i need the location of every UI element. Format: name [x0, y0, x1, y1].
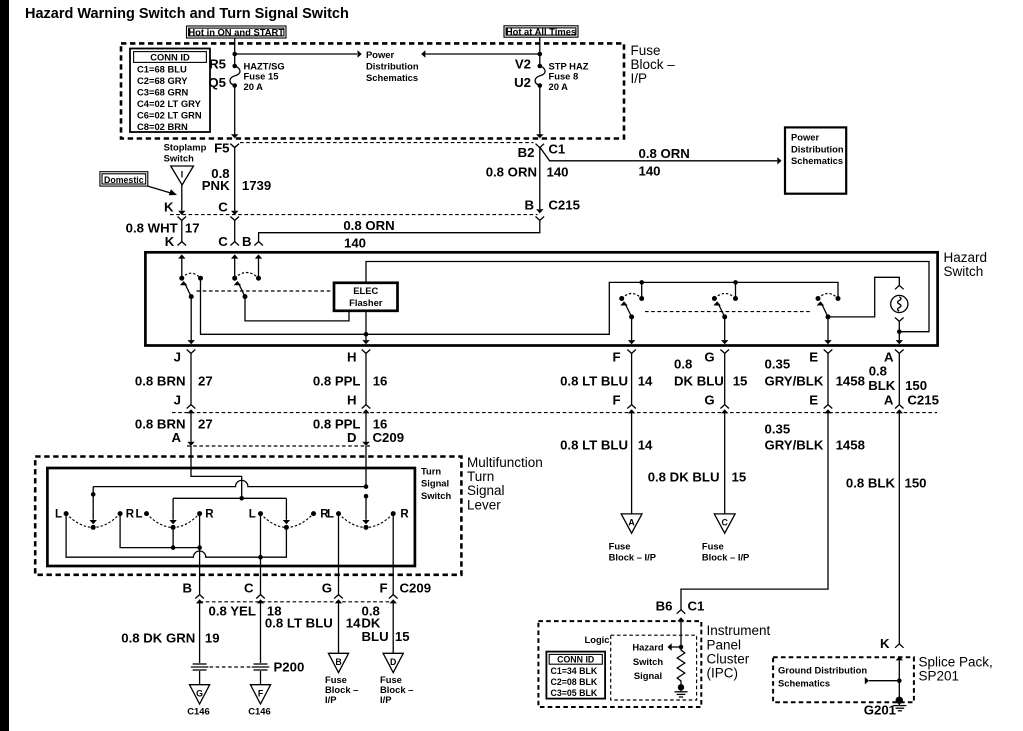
svg-text:C8=02 BRN: C8=02 BRN	[137, 121, 188, 132]
svg-text:R: R	[126, 509, 135, 521]
wire C output (pole3 L)	[256, 514, 265, 604]
switch K contact (hazard)	[178, 254, 203, 299]
svg-text:Fuse: Fuse	[702, 541, 724, 552]
node Power Distribution Schematics box (right)	[785, 127, 846, 193]
turn signal switch box	[47, 468, 415, 566]
svg-text:Signal: Signal	[634, 670, 662, 681]
svg-text:D: D	[390, 657, 396, 667]
wire flasher mech dashed (right)	[645, 311, 812, 313]
svg-text:0.35: 0.35	[765, 357, 791, 372]
svg-text:17: 17	[185, 221, 200, 236]
elec flasher U1	[334, 283, 398, 311]
node K label (upper)	[164, 199, 228, 214]
hazard switch box	[145, 252, 937, 345]
ground (IPC logic)	[675, 684, 688, 697]
svg-text:E: E	[809, 350, 818, 365]
svg-text:I: I	[181, 170, 183, 180]
svg-text:Block – I/P: Block – I/P	[609, 552, 656, 563]
fuse HAZT/SG Fuse 15	[208, 56, 284, 92]
svg-text:0.8 LT BLU: 0.8 LT BLU	[265, 616, 333, 631]
svg-text:ELEC: ELEC	[353, 285, 378, 296]
page edge bar	[0, 0, 9, 731]
resistor (IPC hazard signal)	[677, 647, 685, 685]
node connector C215 dashed line (lower)	[172, 412, 937, 414]
svg-text:20 A: 20 A	[549, 81, 569, 92]
svg-text:D: D	[347, 430, 357, 445]
svg-text:L: L	[55, 509, 62, 521]
svg-text:140: 140	[639, 164, 661, 179]
ground G201	[864, 702, 907, 717]
wire G to fuse block (0.8 LT BLU 14)	[265, 603, 361, 653]
wire B6 into IPC	[677, 617, 684, 649]
svg-text:Distribution: Distribution	[791, 144, 844, 155]
node connector C209 dashed line (upper)	[187, 445, 370, 447]
connector C triangle (Fuse Block I/P)	[702, 514, 749, 563]
splice (B wire)	[191, 664, 209, 670]
wire A to splice pack (0.8 BLK 150)	[846, 413, 927, 651]
svg-text:Logic: Logic	[585, 634, 610, 645]
IPC dashed box	[538, 621, 701, 707]
fuse STP HAZ Fuse 8	[514, 56, 589, 92]
wire fuse to B2	[536, 86, 543, 139]
svg-text:Splice Pack,: Splice Pack,	[919, 654, 993, 669]
svg-text:P200: P200	[274, 660, 305, 675]
node L R labels pole 3	[249, 509, 330, 521]
svg-text:15: 15	[395, 629, 410, 644]
wire stoplamp to K	[178, 185, 185, 215]
svg-text:Power: Power	[791, 132, 819, 143]
svg-text:15: 15	[733, 373, 748, 388]
svg-text:150: 150	[905, 378, 927, 393]
wire D feed line (hops A drop)	[91, 480, 368, 496]
svg-text:Hot in ON and START: Hot in ON and START	[188, 26, 284, 37]
svg-text:0.8 BRN: 0.8 BRN	[135, 373, 186, 388]
svg-text:Schematics: Schematics	[791, 155, 843, 166]
wire B to C146 (0.8 DK GRN 19)	[121, 603, 219, 684]
wire C to C146 (0.8 YEL 18)	[208, 603, 281, 684]
node B6 / C1	[656, 598, 705, 613]
svg-text:140: 140	[344, 236, 366, 251]
svg-text:C: C	[722, 518, 729, 528]
wire B2 to C215 (0.8 ORN 140)	[486, 148, 569, 214]
splice P200	[210, 660, 305, 675]
svg-text:Stoplamp: Stoplamp	[164, 142, 207, 153]
svg-text:Hazard: Hazard	[632, 642, 664, 653]
wire A pin to C215	[895, 350, 904, 414]
node Stoplamp Switch	[164, 142, 207, 185]
wire F pin to C215	[627, 350, 636, 414]
svg-text:1739: 1739	[242, 178, 271, 193]
wire G to fuse block (0.8 DK BLU 15)	[648, 413, 746, 514]
svg-text:I/P: I/P	[325, 694, 336, 705]
svg-text:0.8 DK BLU: 0.8 DK BLU	[648, 470, 720, 485]
node Multifunction Turn Signal Lever label	[467, 455, 543, 512]
svg-text:CONN ID: CONN ID	[557, 654, 594, 664]
svg-text:Fuse: Fuse	[609, 541, 631, 552]
wire K into splice pack	[896, 656, 903, 699]
node B2 / C1	[518, 141, 566, 160]
wire 0.8 PNK 1739	[202, 144, 271, 246]
wire left-turn bus (pole1 L, C junction, pole3 pivot)	[66, 514, 286, 560]
svg-text:Turn: Turn	[467, 469, 494, 484]
node Hot in ON and START	[187, 26, 287, 38]
svg-text:Signal: Signal	[421, 478, 449, 489]
wire K feed bus to right switches	[201, 278, 839, 334]
svg-text:C3=68 GRN: C3=68 GRN	[137, 87, 189, 98]
svg-text:19: 19	[205, 631, 220, 646]
svg-text:Distribution: Distribution	[366, 61, 419, 72]
svg-text:C215: C215	[548, 198, 580, 213]
svg-text:0.8 LT BLU: 0.8 LT BLU	[560, 437, 628, 452]
splice pack dashed box	[773, 657, 914, 702]
wire arrow from STP HAZ fuse to Power Distribution text	[421, 50, 540, 57]
svg-text:R5: R5	[209, 56, 226, 71]
svg-text:C146: C146	[187, 706, 209, 717]
svg-text:G: G	[704, 350, 714, 365]
node Turn Signal Switch label	[421, 465, 451, 501]
wire F output (pole4 R)	[389, 514, 398, 604]
svg-text:Switch: Switch	[944, 264, 984, 279]
node CONN ID table (IPC)	[546, 652, 605, 699]
node Splice Pack SP201 label	[919, 654, 993, 683]
svg-text:K: K	[165, 234, 175, 249]
svg-text:Panel: Panel	[707, 637, 742, 652]
wire H pin to C215	[362, 350, 371, 414]
switch turn pole 4 (L-R)	[336, 496, 396, 530]
svg-text:B6: B6	[656, 598, 673, 613]
svg-text:0.8 ORN: 0.8 ORN	[486, 165, 537, 180]
svg-text:BLK: BLK	[868, 378, 896, 393]
svg-text:B: B	[242, 234, 252, 249]
wire 0.8 WHT 17	[126, 217, 200, 246]
connector D triangle (Fuse Block I/P)	[380, 653, 413, 705]
svg-text:140: 140	[547, 165, 569, 180]
svg-text:0.8: 0.8	[674, 357, 692, 372]
svg-text:Power: Power	[366, 49, 394, 60]
svg-text:Instrument: Instrument	[707, 623, 771, 638]
svg-text:L: L	[327, 509, 334, 521]
svg-text:L: L	[135, 509, 142, 521]
svg-text:Hazard: Hazard	[944, 250, 988, 265]
svg-text:0.8 PPL: 0.8 PPL	[313, 373, 361, 388]
svg-text:C3=05 BLK: C3=05 BLK	[551, 688, 598, 698]
wire 0.8 ORN 140 horizontal to B pin	[254, 217, 544, 251]
svg-text:L: L	[249, 509, 256, 521]
switch turn pole 2 (L-R)	[144, 498, 202, 530]
svg-text:20 A: 20 A	[244, 81, 264, 92]
svg-text:Q5: Q5	[208, 75, 226, 90]
svg-text:1458: 1458	[836, 373, 865, 388]
node Hazard Switch label	[944, 250, 988, 279]
switch turn pole 1 (L-R)	[64, 487, 123, 530]
svg-text:G: G	[322, 581, 332, 596]
wire B output (pole2 R)	[195, 514, 204, 604]
svg-text:C4=02 LT GRY: C4=02 LT GRY	[137, 98, 202, 109]
svg-text:C: C	[244, 581, 254, 596]
svg-text:PNK: PNK	[202, 178, 230, 193]
wire J pin to C215	[187, 350, 196, 414]
svg-text:C2=68 GRY: C2=68 GRY	[137, 75, 188, 86]
svg-text:J: J	[174, 350, 181, 365]
svg-text:Block –: Block –	[631, 57, 676, 72]
svg-text:H: H	[347, 392, 357, 407]
svg-text:14: 14	[346, 616, 361, 631]
node Domestic	[100, 172, 177, 196]
svg-text:14: 14	[638, 373, 653, 388]
svg-text:CONN ID: CONN ID	[150, 51, 190, 62]
node wire labels above C215	[135, 357, 927, 393]
svg-text:Switch: Switch	[164, 153, 194, 164]
svg-text:0.8 BLK: 0.8 BLK	[846, 475, 896, 490]
svg-text:Hot at All Times: Hot at All Times	[506, 26, 576, 37]
title	[25, 6, 349, 22]
svg-text:Fuse: Fuse	[631, 43, 661, 58]
svg-text:C1: C1	[548, 141, 565, 156]
connector A triangle (Fuse Block I/P)	[609, 514, 656, 563]
svg-text:F: F	[613, 392, 621, 407]
svg-text:C215: C215	[907, 392, 939, 407]
svg-text:15: 15	[732, 470, 747, 485]
svg-text:G: G	[704, 392, 714, 407]
wire A feed line	[173, 494, 368, 501]
node F5	[214, 141, 239, 156]
node L R labels pole 1	[55, 509, 135, 521]
svg-text:Hazard Warning Switch and Turn: Hazard Warning Switch and Turn Signal Sw…	[25, 6, 349, 22]
svg-text:Signal: Signal	[467, 483, 505, 498]
svg-text:V2: V2	[515, 56, 531, 71]
svg-text:0.8 ORN: 0.8 ORN	[639, 146, 690, 161]
wire from Hot in ON and START	[234, 38, 236, 66]
multifunction lever dashed box	[35, 457, 461, 575]
node Power Distribution Schematics text (top)	[366, 49, 419, 83]
svg-text:B: B	[335, 657, 341, 667]
node J H F G E A pin labels	[174, 350, 894, 365]
svg-text:C209: C209	[373, 430, 405, 445]
svg-text:I/P: I/P	[631, 71, 648, 86]
wire C switch output to flasher	[245, 297, 349, 321]
svg-text:F5: F5	[214, 141, 229, 156]
svg-text:Schematics: Schematics	[778, 678, 830, 689]
svg-text:14: 14	[638, 437, 653, 452]
svg-text:B: B	[524, 198, 534, 213]
svg-text:A: A	[884, 392, 894, 407]
svg-text:SP201: SP201	[919, 668, 960, 683]
svg-text:GRY/BLK: GRY/BLK	[765, 437, 824, 452]
connector F triangle C146	[248, 685, 270, 717]
wire H/D to C209 (0.8 PPL 16)	[313, 413, 404, 446]
svg-text:C: C	[218, 234, 228, 249]
svg-text:0.8 YEL: 0.8 YEL	[208, 604, 255, 619]
node Ground Distribution Schematics	[778, 665, 899, 689]
svg-text:R: R	[205, 509, 214, 521]
svg-text:K: K	[164, 199, 174, 214]
svg-text:A: A	[171, 430, 181, 445]
svg-text:C2=08 BLK: C2=08 BLK	[551, 677, 598, 687]
svg-text:16: 16	[373, 373, 388, 388]
svg-text:0.8 ORN: 0.8 ORN	[343, 218, 394, 233]
svg-text:0.8: 0.8	[869, 363, 887, 378]
node L R labels pole 4	[327, 509, 409, 521]
wire inner feed line (top) with lamp return	[366, 262, 929, 332]
svg-text:Flasher: Flasher	[349, 297, 383, 308]
svg-text:F: F	[258, 688, 264, 698]
switch turn pole 3 (L-R)	[258, 498, 316, 530]
fuse block I/P dashed box	[121, 43, 624, 138]
svg-text:Block – I/P: Block – I/P	[702, 552, 749, 563]
node junction to power distribution (left)	[232, 50, 361, 57]
wire F to fuse block (0.8 LT BLU 14)	[560, 413, 653, 514]
svg-text:(IPC): (IPC)	[707, 666, 739, 681]
wire G pin to C215	[720, 350, 729, 414]
svg-text:Switch: Switch	[421, 490, 451, 501]
switch C contact (hazard)	[231, 254, 262, 299]
svg-text:GRY/BLK: GRY/BLK	[765, 373, 824, 388]
svg-text:I/P: I/P	[380, 694, 391, 705]
svg-text:Multifunction: Multifunction	[467, 455, 543, 470]
logic dashed box	[611, 635, 697, 700]
svg-text:R: R	[400, 509, 409, 521]
node I/P connector line (F5-B2)	[240, 142, 534, 144]
svg-text:Schematics: Schematics	[366, 72, 418, 83]
svg-text:G: G	[196, 688, 203, 698]
node Instrument Panel Cluster label	[707, 623, 771, 680]
svg-text:E: E	[809, 392, 818, 407]
svg-text:0.8 DK GRN: 0.8 DK GRN	[121, 631, 195, 646]
svg-text:C1=68 BLU: C1=68 BLU	[137, 64, 187, 75]
svg-text:B: B	[182, 581, 192, 596]
wire E to IPC B6 (0.35 GRY/BLK 1458)	[677, 413, 865, 613]
svg-text:0.8 LT BLU: 0.8 LT BLU	[560, 373, 628, 388]
svg-text:C: C	[218, 199, 228, 214]
svg-text:C209: C209	[400, 581, 432, 596]
switch G contact (hazard)	[712, 294, 738, 345]
switch E contact (hazard)	[816, 294, 841, 345]
lamp hazard indicator	[891, 295, 908, 312]
node connector C209 dashed line (lower)	[200, 601, 394, 603]
wire E pin to C215	[824, 350, 833, 414]
svg-text:Ground Distribution: Ground Distribution	[778, 665, 867, 676]
wire right-turn bus (pole1 R, pole2 pivot, B)	[120, 514, 202, 550]
node splice ball G201	[896, 697, 903, 705]
svg-text:A: A	[628, 518, 635, 528]
wire J output	[188, 297, 195, 345]
svg-text:H: H	[347, 350, 357, 365]
svg-text:27: 27	[198, 373, 213, 388]
wire 0.8 ORN 140 to Power Distribution Schematics box	[540, 146, 781, 179]
svg-text:C1: C1	[688, 598, 705, 613]
svg-text:J: J	[174, 392, 181, 407]
svg-text:C6=02 LT GRN: C6=02 LT GRN	[137, 110, 202, 121]
svg-text:Domestic: Domestic	[104, 175, 144, 185]
wire F to fuse block (0.8 DK BLU 15)	[361, 603, 409, 653]
svg-text:Switch: Switch	[633, 656, 663, 667]
svg-text:C1=34 BLK: C1=34 BLK	[551, 666, 598, 676]
node connector C215 dashed line (upper)	[170, 214, 538, 216]
svg-text:DK BLU: DK BLU	[674, 373, 724, 388]
node B / C215	[524, 198, 579, 213]
wire E switch to hazard lamp	[828, 277, 904, 317]
svg-text:C146: C146	[248, 706, 270, 717]
connector B triangle (Fuse Block I/P)	[325, 653, 358, 705]
wire flasher control dashed (left)	[197, 290, 335, 292]
svg-text:Lever: Lever	[467, 497, 501, 512]
node Hot at All Times	[504, 26, 578, 37]
wire lamp to A pin	[895, 318, 904, 345]
wire fuse to F5	[231, 86, 238, 139]
node Logic label	[585, 634, 610, 645]
wire flasher bottom pin to H	[362, 311, 369, 345]
svg-text:F: F	[613, 350, 621, 365]
node Fuse Block - I/P label	[631, 43, 676, 86]
node K C B pin labels (hazard switch top)	[165, 234, 252, 249]
svg-text:G201: G201	[864, 702, 896, 717]
svg-text:0.35: 0.35	[765, 421, 791, 436]
svg-text:BLU: BLU	[362, 629, 389, 644]
connector G triangle C146	[187, 685, 209, 717]
svg-text:Turn: Turn	[421, 465, 441, 476]
svg-text:U2: U2	[514, 75, 531, 90]
node CONN ID table (fuse block)	[130, 49, 210, 133]
svg-text:Cluster: Cluster	[707, 651, 750, 666]
wire G output (pole4 L)	[334, 514, 343, 604]
node second row pin labels J H F G E A	[174, 392, 939, 407]
svg-text:F: F	[379, 581, 387, 596]
wire J/A to C209 (0.8 BRN 27)	[135, 413, 213, 446]
wire from Hot at All Times	[538, 37, 543, 66]
svg-text:K: K	[880, 636, 890, 651]
wire A input routing	[191, 446, 366, 498]
node L R labels pole 2	[135, 509, 214, 521]
node Hazard Switch Signal	[632, 642, 681, 681]
svg-text:150: 150	[905, 475, 927, 490]
switch F contact (hazard)	[619, 294, 644, 345]
svg-text:1458: 1458	[836, 437, 865, 452]
svg-text:27: 27	[198, 416, 213, 431]
node B C G F pin labels	[182, 581, 431, 596]
svg-text:B2: B2	[518, 145, 535, 160]
